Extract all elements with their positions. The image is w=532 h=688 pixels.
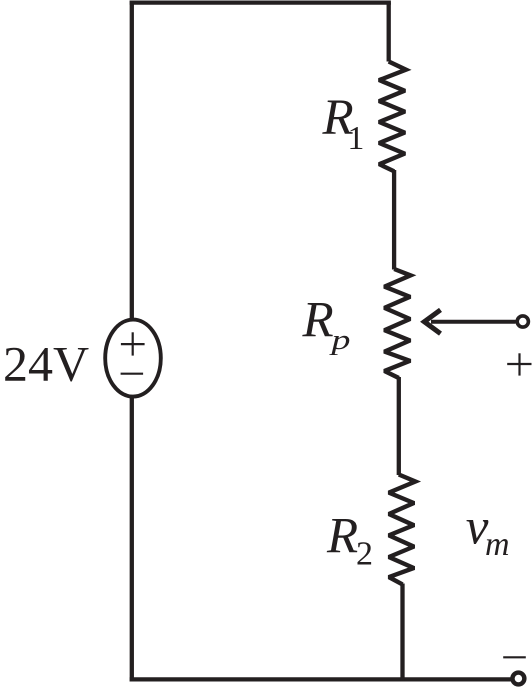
svg-text:m: m bbox=[485, 526, 510, 563]
wire between Rp and R2 bbox=[397, 377, 401, 475]
label vm bbox=[466, 500, 510, 564]
wire between R1 and Rp bbox=[392, 170, 396, 270]
minus terminal label bbox=[503, 656, 526, 658]
wiper terminal circle bbox=[517, 316, 528, 327]
wiper arrow head bbox=[424, 310, 440, 334]
bottom terminal circle bbox=[512, 673, 524, 685]
wire left lower bbox=[130, 398, 134, 682]
svg-text:24V: 24V bbox=[3, 336, 89, 392]
wire bottom bbox=[130, 677, 512, 681]
wire below R2 bbox=[400, 584, 404, 682]
tip clip masks (flatten middle zigzag peaks) bbox=[372, 75, 422, 587]
wire left upper bbox=[130, 1, 134, 319]
wire top bbox=[130, 0, 391, 4]
svg-text:R: R bbox=[302, 293, 334, 349]
voltage source plus sign bbox=[121, 332, 145, 355]
label Rp bbox=[302, 293, 351, 356]
wiper arrow shaft bbox=[431, 320, 516, 324]
voltage source minus sign bbox=[121, 373, 144, 375]
potentiometer Rp bbox=[385, 269, 411, 378]
plus terminal label bbox=[507, 353, 531, 375]
svg-text:p: p bbox=[329, 324, 350, 356]
label R2 bbox=[326, 509, 373, 573]
resistor R2 bbox=[389, 475, 416, 585]
label R1 bbox=[322, 90, 365, 157]
svg-text:R: R bbox=[326, 509, 358, 565]
resistor R1 bbox=[379, 62, 406, 172]
svg-text:1: 1 bbox=[347, 120, 364, 157]
voltage source ellipse bbox=[105, 320, 161, 397]
svg-text:2: 2 bbox=[356, 536, 373, 573]
wire right top lead bbox=[387, 3, 391, 62]
